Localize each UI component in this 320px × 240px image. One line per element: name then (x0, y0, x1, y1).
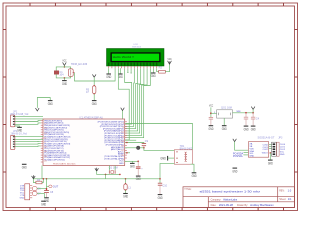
capacitor C6 oval body (32, 186, 37, 190)
capacitor C2 plates (209, 117, 213, 119)
svg-text:JP3: JP3 (278, 136, 283, 139)
junction node crystal right (119, 174, 121, 176)
junction node trim bottom (64, 77, 66, 79)
svg-text:GND: GND (130, 165, 135, 169)
wire crystal caps net (106, 173, 120, 175)
net label SCL wire (233, 155, 248, 158)
svg-text:C9: C9 (145, 140, 149, 143)
wire TCXO gnd pin (223, 118, 225, 125)
wire rail to resistor R4 (33, 179, 36, 183)
connector JP2 pads (13, 136, 15, 147)
ground flag under LCD pin5 (118, 68, 123, 79)
ground flag rotated at transformer left (160, 156, 167, 161)
ground flag below C8 (44, 198, 49, 203)
junction node L1 rail (125, 178, 127, 180)
wire LCD E and data lines fan to MCU (125, 68, 151, 138)
MCU IC1 body (43, 119, 125, 166)
wire VCC to TCXO (210, 107, 212, 117)
junction node cap top (46, 189, 47, 190)
svg-text:CTS: CTS (20, 195, 25, 197)
frame column ticks top (30, 3, 284, 6)
transformer TR1 label (180, 145, 193, 151)
wire JP1 pin1 to MCU (15, 115, 43, 117)
LCD1 label TUXGR_16X2_R2 (132, 44, 141, 49)
wire C10 to ground (159, 185, 161, 194)
MCU right pin name rows (98, 122, 125, 165)
svg-text:VDDO: VDDO (262, 152, 268, 154)
svg-text:Andrey Bochkarev: Andrey Bochkarev (250, 203, 274, 207)
ground flag under LCD pin15 (151, 68, 156, 78)
svg-text:CLK0: CLK0 (280, 144, 286, 146)
svg-text:2021-09-28: 2021-09-28 (219, 203, 234, 207)
LCD module LCD1 body (107, 49, 165, 67)
wire node to ground (63, 78, 65, 81)
title block REV field (279, 188, 292, 192)
svg-text:CLK1: CLK1 (263, 147, 269, 149)
crystal Q1 body (109, 170, 115, 173)
wire gnd rail (33, 178, 160, 180)
svg-text:PD0(RXD/PCINT16): PD0(RXD/PCINT16) (44, 150, 64, 152)
ground flag below R3 (92, 101, 97, 106)
wire C8 to ground (46, 192, 48, 197)
wire VCC rail above MCU (37, 98, 50, 108)
wire R4 to rail (42, 179, 43, 183)
wire crystal net to rail (105, 174, 107, 178)
svg-text:GND: GND (250, 156, 255, 158)
svg-text:GND: GND (222, 127, 227, 131)
svg-text:REV:: REV: (279, 189, 285, 192)
svg-text:C4: C4 (256, 118, 260, 121)
resistor R3 label (86, 89, 90, 95)
svg-text:1/1: 1/1 (288, 197, 292, 201)
wire si5351 gnd down (269, 153, 271, 160)
svg-text:GND: GND (232, 169, 237, 173)
svg-text:Q1 16M: Q1 16M (109, 167, 118, 170)
svg-text:TITLE:: TITLE: (184, 188, 192, 191)
svg-text:GND: GND (209, 127, 214, 131)
wire vcc to xo net (252, 109, 254, 112)
wire C2 to ground (210, 119, 212, 125)
ground flag under LCD pin1 (106, 68, 111, 79)
frame column ticks bottom (30, 208, 284, 211)
svg-text:SI5351A-B-GT: SI5351A-B-GT (258, 136, 275, 140)
svg-text:CLK1: CLK1 (280, 147, 286, 149)
svg-text:Sheet:: Sheet: (279, 198, 286, 201)
MCU left pin stubs (41, 121, 43, 162)
wire rail to L1 (125, 179, 127, 184)
net label SDA wire (233, 152, 248, 155)
svg-text:(PCINT20/XCK/T0)PD4: (PCINT20/XCK/T0)PD4 (101, 124, 124, 126)
junction node si5351 gnd (270, 152, 272, 154)
title block outline (183, 187, 295, 208)
svg-text:(PCINT21/OC0B/T1)PD5: (PCINT21/OC0B/T1)PD5 (100, 126, 125, 128)
supply VCC backlight resistor stack (92, 74, 96, 77)
svg-text:GND: GND (280, 154, 285, 156)
svg-text:47: 47 (86, 91, 89, 94)
ground flag right of MCU bottom (130, 161, 135, 168)
supply VCC near LCD backlight (168, 61, 172, 64)
connector SV1 pin labels (20, 185, 25, 199)
wire SV1 rxd txd (37, 189, 46, 198)
svg-text:VDD: VDD (250, 148, 255, 150)
resistor R4 body (36, 181, 42, 184)
wire TCXO out (233, 112, 254, 114)
svg-text:GND: GND (41, 202, 46, 206)
svg-text:RXD: RXD (20, 188, 25, 190)
svg-text:Date:: Date: (211, 204, 217, 207)
svg-text:DTR: DTR (20, 185, 25, 187)
wire MCU gnd pin row (125, 160, 139, 162)
frame row ticks left (3, 30, 6, 173)
svg-text:R2: R2 (159, 66, 163, 70)
wire MCU gnd down to rail (41, 166, 43, 179)
LCD pins 1-16 stubs (109, 66, 157, 68)
junction node avcc (126, 152, 128, 154)
svg-text:PD4(T0/XCK/PCINT20): PD4(T0/XCK/PCINT20) (44, 141, 67, 143)
svg-text:PB2(SS/OC1B/PCINT2): PB2(SS/OC1B/PCINT2) (44, 127, 67, 129)
capacitor C1 contrast filled (54, 71, 59, 74)
svg-text:PC6(RESET/PCINT14): PC6(RESET/PCINT14) (44, 153, 66, 155)
junction node rail end (159, 178, 161, 180)
capacitor C8 plates (44, 191, 49, 193)
supply VCC above MCU right (121, 108, 125, 111)
svg-text:(PCINT19/OC2B/INT1)PD3: (PCINT19/OC2B/INT1)PD3 (98, 122, 125, 124)
svg-text:QG1 16M: QG1 16M (221, 106, 232, 109)
svg-text:VCC: VCC (62, 60, 66, 63)
wire transformer bottom left to C10 (160, 163, 174, 183)
wire JP1 gnd (15, 126, 20, 127)
svg-text:GND: GND (48, 102, 53, 106)
resistor R3 vertical body (93, 85, 96, 95)
frame row ticks right (295, 30, 298, 173)
svg-text:GND: GND (22, 166, 27, 170)
node dots unconnected data stubs (127, 72, 131, 74)
wire si5351 clk0 (269, 144, 272, 146)
ground flag below JP1 (17, 127, 22, 132)
ground flag below C4 (251, 126, 256, 131)
wire JP2 pin4 to MCU (15, 143, 41, 146)
svg-text:LCD1: LCD1 (134, 44, 139, 46)
wire JP1 pin3 to MCU (15, 120, 41, 123)
junction node crystal left (105, 174, 107, 176)
ground flag below C3 (244, 126, 249, 131)
svg-text:GND: GND (136, 177, 141, 181)
svg-text:C10: C10 (162, 184, 167, 187)
junction node C5 top (137, 161, 139, 163)
pin header JP3 outline (277, 142, 279, 156)
wire MCU rf out row1 (125, 139, 136, 141)
svg-text:PD5(T1/OC0B/PCINT21): PD5(T1/OC0B/PCINT21) (44, 139, 68, 141)
wire trim bottom tee (56, 74, 70, 78)
svg-text:TUXGR_16X2_R2: TUXGR_16X2_R2 (132, 46, 141, 48)
wire JP2 pin3 to MCU (15, 140, 41, 142)
junction node rf row2 (126, 142, 128, 144)
node OUT stub (47, 185, 59, 189)
wire MCU xtal2 (114, 166, 116, 171)
si5351 U1 body (248, 142, 268, 158)
wire MCU xtal1 (108, 166, 110, 171)
supply VCC near xo caps (251, 107, 255, 110)
svg-text:GND: GND (20, 198, 25, 200)
wire TCXO pin1 (211, 112, 217, 114)
wire MCU rf out row2 (125, 142, 144, 145)
TCXO oscillator body (217, 110, 233, 118)
wire supply to crystal net (97, 171, 106, 174)
wire gnd to transformer mid left (168, 157, 175, 159)
ground flag MCU top (48, 101, 53, 106)
wire R3 to ground (93, 94, 95, 101)
transformer TR1 body (174, 150, 192, 164)
MCU right pin stubs (125, 122, 127, 162)
ground flag below SV1 (41, 201, 46, 206)
svg-text:GND: GND (62, 82, 67, 86)
svg-text:TXD: TXD (20, 190, 25, 192)
capacitor C5 polarized body (136, 161, 141, 176)
ground flag below trimmer (62, 81, 67, 86)
wire resistor to VCC (165, 65, 169, 72)
svg-text:C7: C7 (38, 192, 42, 195)
svg-text:1.0: 1.0 (288, 188, 292, 192)
junction node trim top (64, 66, 66, 68)
wire VCC to trim node (63, 65, 65, 67)
supply flag rail left end (32, 175, 36, 178)
svg-text:PD2(INT0/PCINT18): PD2(INT0/PCINT18) (44, 146, 64, 148)
connector JP1 body (10, 115, 15, 127)
svg-text:PD3(INT1/OC2B/PCINT19): PD3(INT1/OC2B/PCINT19) (44, 143, 70, 145)
title block Company field (211, 197, 238, 201)
connector JP2 body (10, 135, 15, 149)
supply VCC left of MCU top (36, 108, 40, 111)
LCD pin strip bars (109, 63, 157, 66)
ground flag below JP2 (22, 164, 27, 169)
svg-text:GND: GND (192, 174, 197, 178)
wire JP2 pin2 to MCU (15, 138, 43, 140)
svg-text:L1: L1 (128, 187, 131, 190)
capacitor C1 label (59, 71, 64, 77)
frame outer border (3, 3, 298, 211)
svg-text:PB5(SCK/PCINT5): PB5(SCK/PCINT5) (44, 120, 62, 122)
svg-text:C8: C8 (50, 191, 54, 194)
wire C9 down to rf path (143, 146, 145, 148)
svg-text:GND: GND (17, 129, 22, 133)
svg-text:GND: GND (106, 75, 111, 79)
svg-text:TRIM_EU-RJ6: TRIM_EU-RJ6 (71, 63, 88, 66)
connector JP1 label (10, 110, 29, 116)
svg-text:PB0(ICP1/CLKO/PCINT0): PB0(ICP1/CLKO/PCINT0) (44, 132, 69, 134)
svg-text:CLK0: CLK0 (263, 144, 269, 146)
svg-text:+: + (141, 168, 143, 171)
capacitor C9 plates (142, 144, 146, 146)
wire JP1 pin2 to MCU (15, 118, 43, 120)
ground flag below transformer (192, 173, 197, 178)
svg-text:AlakumLabs: AlakumLabs (223, 197, 238, 201)
wire MCU clock out big loop to transformer (125, 124, 192, 150)
svg-text:CLK2: CLK2 (280, 149, 286, 151)
capacitor C5 polarized label (141, 168, 143, 171)
inductor L1 body (124, 183, 127, 191)
ground flag below si5351 (268, 160, 273, 165)
resistor R2 LCD backlight (159, 70, 166, 73)
wire rf to transformer top left (144, 148, 174, 151)
svg-text:Company:: Company: (211, 198, 222, 201)
svg-text:C6: C6 (38, 188, 42, 191)
wire rail to OUT cap (46, 179, 48, 191)
junction node bead out (143, 147, 145, 149)
svg-text:GND: GND (151, 74, 156, 78)
junction node xo out a (245, 112, 247, 114)
svg-text:GND: GND (268, 161, 273, 165)
svg-text:PB4(MISO/PCINT4): PB4(MISO/PCINT4) (44, 123, 63, 125)
svg-text:GND: GND (244, 127, 249, 131)
wire VCC to MCU top (122, 111, 124, 119)
svg-text:PC5/SCL: PC5/SCL (233, 155, 244, 158)
wire si5351 clk1 (269, 146, 272, 148)
svg-text:VCC: VCC (280, 152, 285, 154)
junction node out rail (46, 178, 48, 180)
wire bead to transformer node (140, 147, 144, 149)
ground flag below C5 (136, 176, 141, 181)
wire LCD RS dogleg to MCU (118, 68, 129, 140)
svg-text:104: 104 (59, 74, 64, 77)
wire si5351 clk2 (269, 148, 272, 150)
connector JP2 label (11, 130, 28, 136)
svg-text:GND: GND (160, 156, 166, 160)
wire transformer bottom right to ground (191, 164, 195, 172)
ground flag below TCXO (222, 126, 227, 131)
wire L1 to ground (125, 190, 127, 193)
svg-text:si5351 based synthesizer 1-30: si5351 based synthesizer 1-30 mhz (200, 189, 261, 193)
svg-text:PD5/OC0B/T1 30m/10m: PD5/OC0B/T1 30m/10m (53, 163, 76, 165)
wire JP2 pin5 to MCU (15, 145, 41, 148)
wire trim top tee (56, 67, 70, 71)
supply flag left of crystal (95, 168, 99, 171)
svg-text:CLK2: CLK2 (263, 149, 269, 151)
title block Date field (211, 203, 275, 207)
svg-text:VCC: VCC (168, 58, 172, 61)
connector SV1 pin stubs (30, 186, 33, 198)
ground flag sda scl area (232, 168, 237, 173)
supply VCC si5351 left (233, 139, 237, 142)
pin header JP3 net labels (280, 144, 286, 156)
svg-text:GND: GND (158, 196, 163, 200)
ferrite bead FB1 (136, 146, 140, 150)
capacitor C3 stack (244, 113, 248, 126)
ground flag below L1 (123, 194, 128, 199)
svg-text:GND: GND (92, 102, 97, 106)
trimmer R1 body (68, 69, 74, 77)
junction node xo out b (252, 112, 254, 114)
svg-text:Hello World !!: Hello World !! (113, 55, 135, 59)
connector JP1 pads (13, 116, 15, 125)
capacitor C4 stack (251, 113, 255, 126)
capacitor C7 oval body (32, 191, 37, 195)
svg-text:GND: GND (119, 163, 124, 165)
ground flag below C10 (158, 195, 163, 200)
MCU left pin numbers red (44, 124, 47, 163)
wire MCU rf path through bead (125, 147, 136, 149)
wire LCD VO to trimmer wiper (75, 68, 116, 81)
junction node TCXO vcc (210, 112, 212, 114)
wire VCC to R3 (93, 77, 95, 85)
connector SV1 body (25, 184, 30, 200)
frame inner border (6, 6, 295, 208)
svg-text:VCC: VCC (209, 105, 213, 108)
wire vcc to si5351 (235, 142, 249, 151)
capacitor C10 plates (158, 183, 162, 185)
junction node R4 rail (43, 178, 45, 180)
wire MCU avcc row (125, 152, 130, 154)
ground flag below C2 (209, 126, 214, 131)
svg-text:VCC: VCC (20, 193, 25, 195)
svg-text:OUT: OUT (53, 185, 59, 189)
svg-text:GND: GND (118, 75, 123, 79)
wire JP2 pin1 to MCU (15, 136, 43, 138)
svg-text:GND: GND (251, 127, 256, 131)
pin header JP3 body (272, 142, 277, 156)
svg-text:Drawn By:: Drawn By: (237, 204, 248, 207)
svg-text:GND: GND (123, 195, 128, 199)
wire LCD pin16 to resistor (157, 68, 159, 72)
si5351 pin rows (250, 143, 255, 158)
title block Sheet field (279, 197, 292, 201)
svg-text:PD1(TXD/PCINT17): PD1(TXD/PCINT17) (44, 148, 64, 150)
wire JP1 pin4 to MCU (15, 123, 41, 124)
MCU left pin name rows (44, 120, 70, 161)
